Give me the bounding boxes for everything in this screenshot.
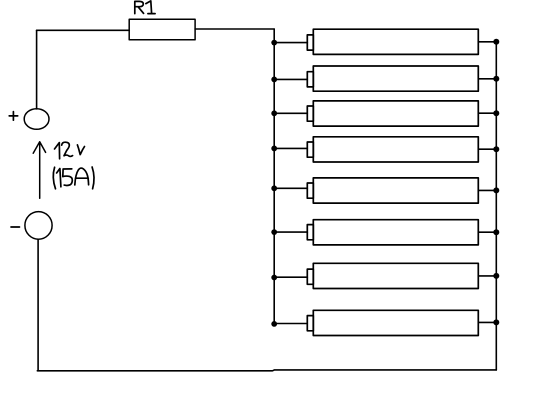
node: left bus row 8 — [271, 321, 277, 327]
wire: lamp 5 to right bus — [478, 189, 496, 191]
wire: left bus to lamp 8 — [274, 323, 307, 325]
wire: left distribution bus — [273, 42, 275, 323]
node: right bus row 7 — [493, 273, 499, 279]
node: right bus row 6 — [493, 229, 499, 235]
node: right bus row 1 — [493, 39, 499, 45]
node: left bus row 5 — [271, 185, 277, 191]
wire: lamp 6 to right bus — [478, 231, 496, 233]
wire: lamp 1 to right bus — [478, 41, 496, 43]
node: left bus row 4 — [271, 146, 277, 152]
wire: left bus to lamp 7 — [274, 276, 307, 278]
wire: lamp 3 to right bus — [478, 112, 496, 114]
wire: lamp 8 to right bus — [478, 321, 496, 323]
fluorescent tube lamp 1 — [307, 29, 478, 54]
fluorescent tube lamp 2 — [307, 66, 478, 91]
node: right bus row 4 — [493, 146, 499, 152]
wire: left bus to lamp 4 — [274, 147, 307, 149]
fluorescent tube lamp 4 — [307, 137, 478, 162]
wire: lamp 7 to right bus — [478, 275, 496, 277]
wire: from − terminal down to bottom return — [37, 239, 39, 370]
label 12v — [55, 142, 85, 159]
node: left bus row 6 — [271, 229, 277, 235]
fluorescent tube lamp 3 — [307, 101, 478, 126]
node: left bus row 2 — [271, 77, 277, 83]
wire: left bus to lamp 1 — [274, 42, 307, 44]
node: right bus row 5 — [493, 187, 499, 193]
resistor R1 — [129, 19, 195, 40]
wire: right collection bus — [495, 42, 497, 370]
wire: left bus to lamp 3 — [274, 112, 307, 114]
label (15A) — [53, 167, 94, 189]
fluorescent tube lamp 7 — [307, 263, 478, 288]
wire: top horizontal from corner to R1 left lead — [37, 29, 130, 31]
node: left bus row 1 — [271, 40, 277, 46]
node: right bus row 3 — [493, 110, 499, 116]
voltage source positive terminal — [24, 109, 49, 130]
node: left bus row 3 — [271, 110, 277, 116]
wire: left bus to lamp 6 — [274, 231, 307, 233]
wire: R1 right lead to left bus corner — [195, 28, 274, 30]
current direction arrow — [33, 142, 45, 198]
node: right bus row 2 — [493, 76, 499, 82]
wire: lamp 4 to right bus — [478, 148, 496, 150]
fluorescent tube lamp 8 — [307, 310, 478, 335]
label R1 — [135, 1, 155, 14]
node: right bus row 8 — [493, 319, 499, 325]
wire: left bus to lamp 5 — [274, 187, 307, 189]
minus sign — [11, 226, 20, 228]
wire: bottom return run — [37, 369, 496, 372]
plus sign — [9, 112, 18, 121]
fluorescent tube lamp 6 — [307, 220, 478, 245]
wire: lamp 2 to right bus — [478, 78, 496, 80]
wire: drop from corner down to node row 1 — [273, 29, 275, 42]
node: left bus row 7 — [271, 275, 277, 281]
wire: left bus to lamp 2 — [274, 78, 307, 80]
fluorescent tube lamp 5 — [307, 178, 478, 203]
wire: vertical from + terminal up to top rail — [36, 30, 38, 109]
voltage source negative terminal — [25, 212, 52, 240]
